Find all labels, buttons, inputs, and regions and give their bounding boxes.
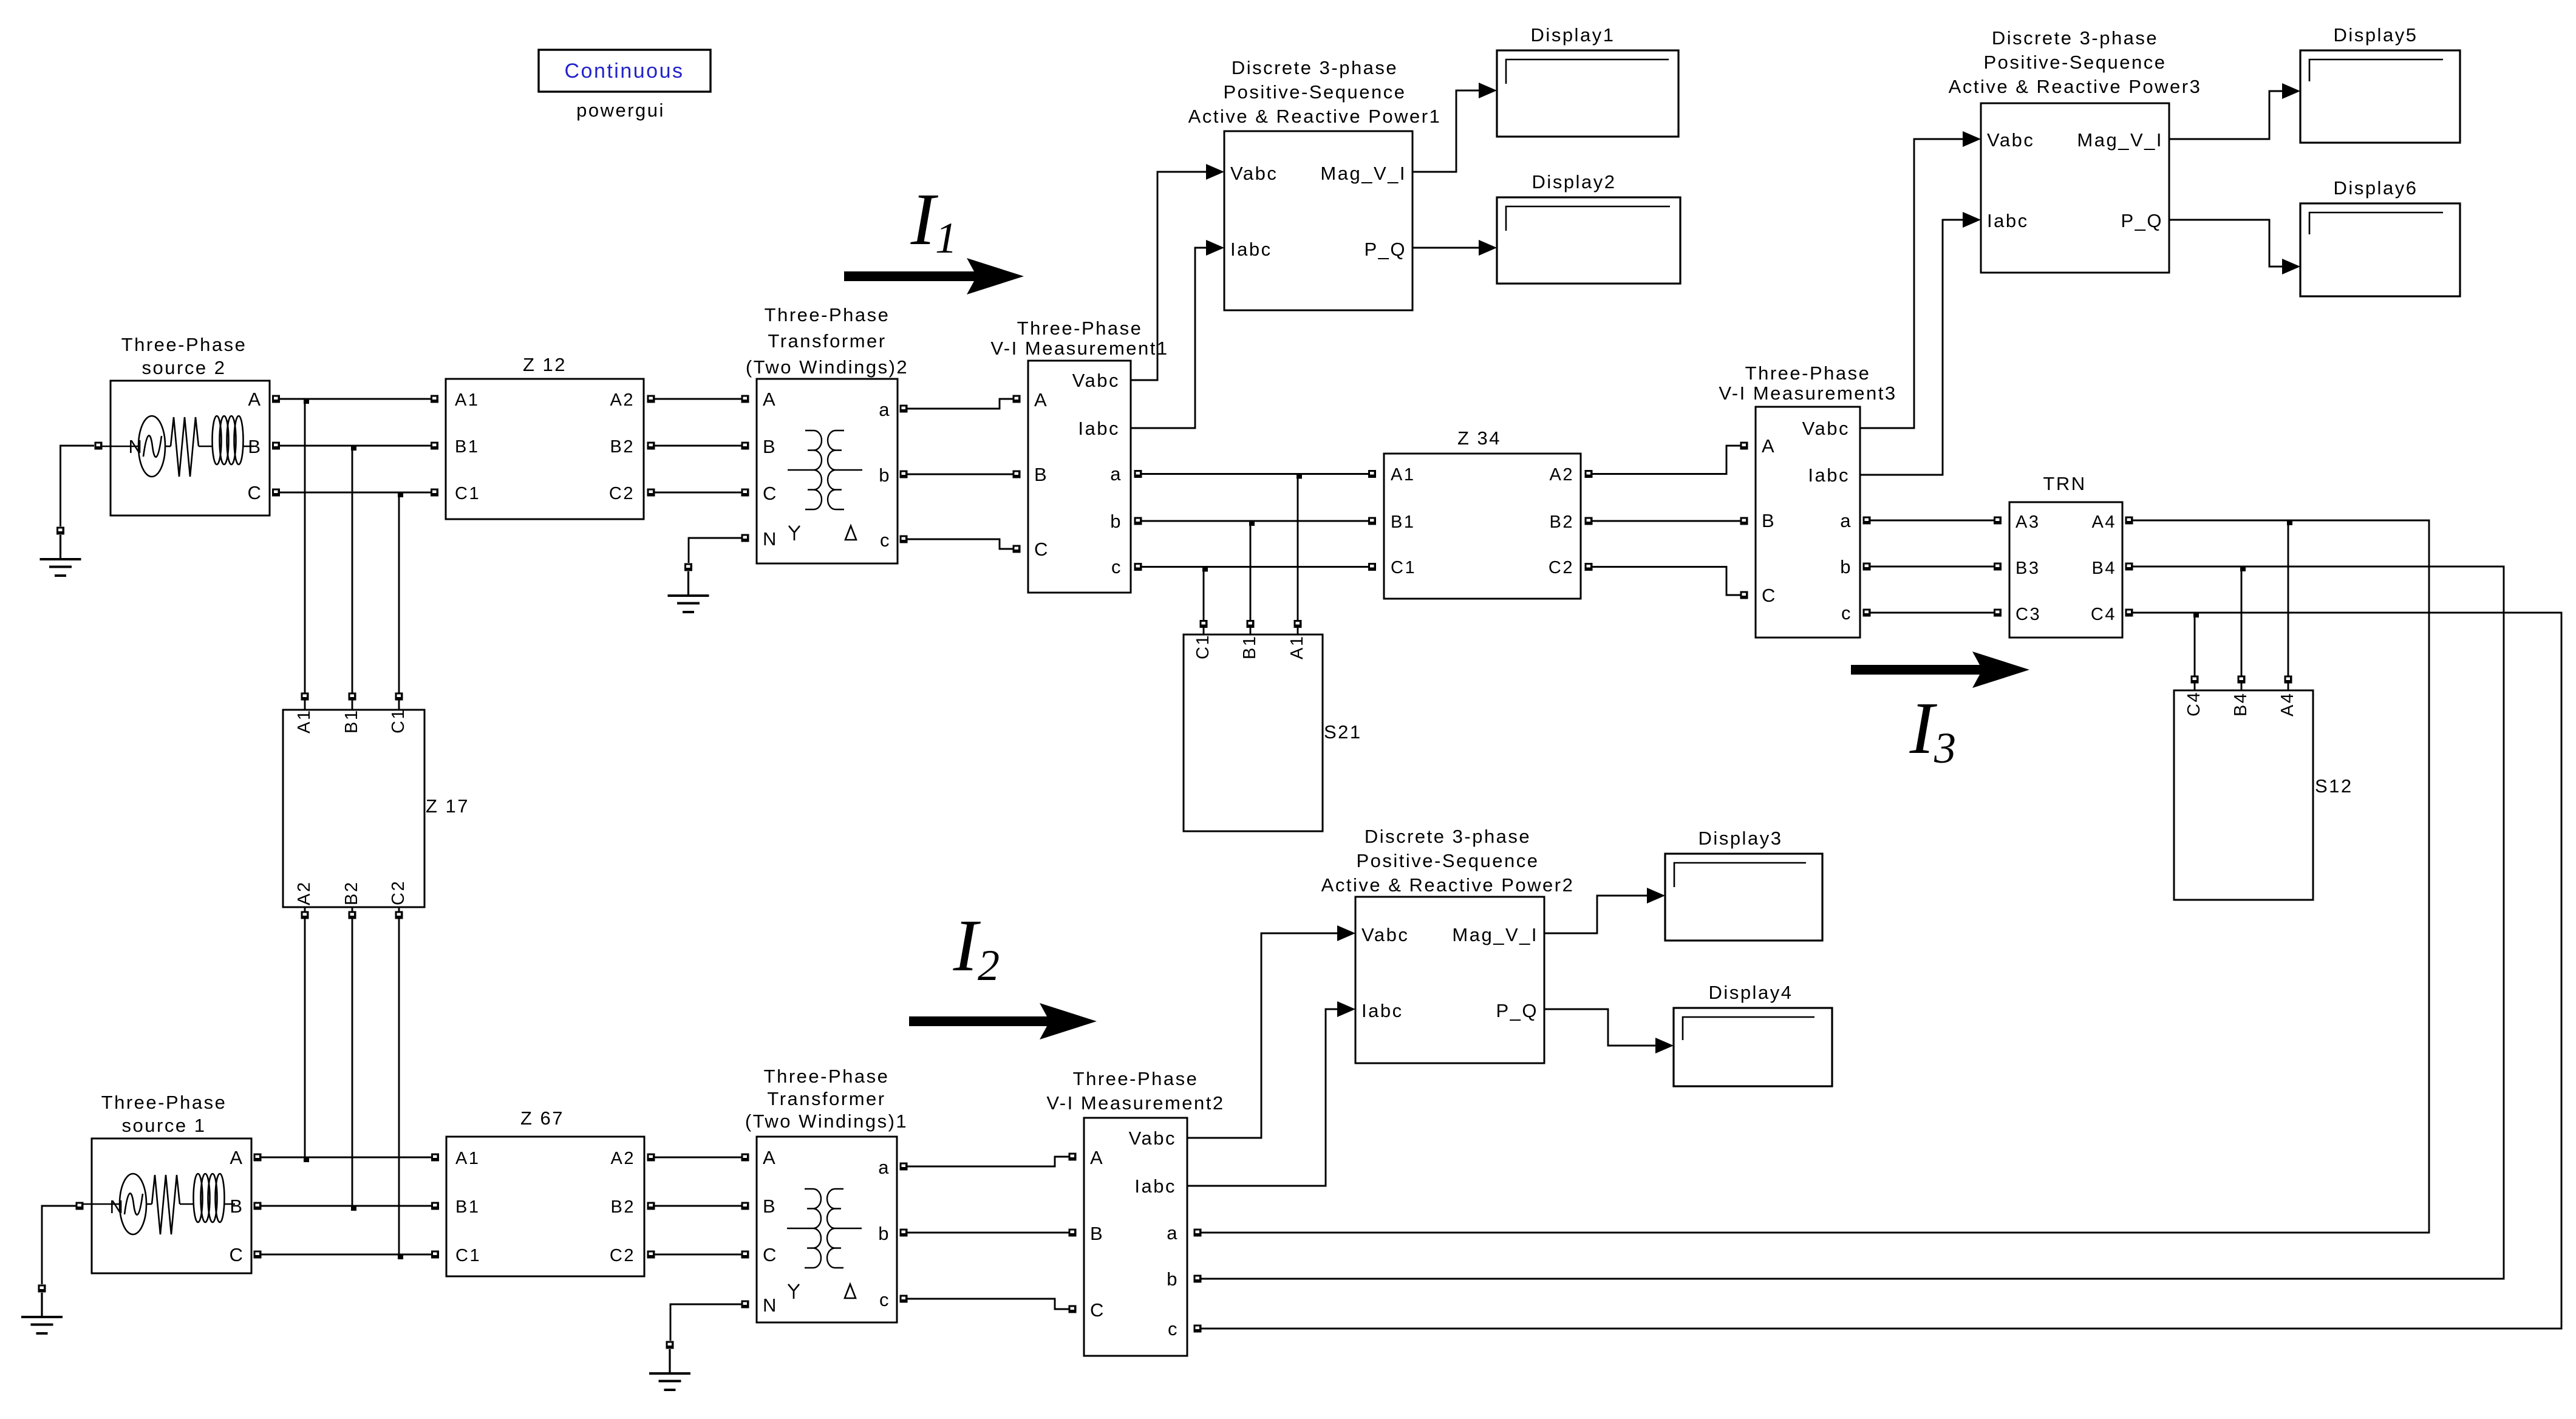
svg-text:1: 1 bbox=[935, 214, 957, 262]
Z67 port C2 bbox=[647, 1251, 655, 1259]
svg-text:Display4: Display4 bbox=[1709, 982, 1793, 1003]
source 2 port B bbox=[272, 442, 280, 450]
wire node B4 down to S12 B4 bbox=[2241, 567, 2243, 679]
svg-text:C: C bbox=[230, 1244, 245, 1265]
svg-text:Z 34: Z 34 bbox=[1457, 427, 1501, 449]
wire node a1 down to S21 A1 bbox=[1297, 474, 1299, 621]
Z17 C2 stub bbox=[398, 907, 400, 911]
svg-text:powergui: powergui bbox=[576, 100, 665, 121]
svg-text:Iabc: Iabc bbox=[1987, 210, 2029, 231]
wire source1 N to ground bbox=[42, 1206, 76, 1284]
svg-text:Three-Phase: Three-Phase bbox=[101, 1092, 227, 1113]
wire node A down to Z17 A1 bbox=[304, 399, 306, 693]
svg-text:B2: B2 bbox=[611, 1197, 635, 1217]
wire transformer2 c to VIM1 C bbox=[907, 539, 1013, 549]
svg-text:B: B bbox=[248, 436, 262, 457]
svg-text:C: C bbox=[763, 1244, 778, 1265]
current arrow I3 bbox=[1851, 652, 2029, 688]
ground GT2 (transformer2 neutral) bbox=[668, 563, 709, 613]
VIM1 port b bbox=[1134, 517, 1142, 525]
svg-text:C3: C3 bbox=[2015, 605, 2041, 624]
three-phase transformer (two windings)2 block bbox=[757, 379, 898, 563]
wire Z67 B2 to transformer1 B bbox=[655, 1205, 741, 1207]
svg-text:B3: B3 bbox=[2015, 559, 2040, 578]
transformer2 port N bbox=[741, 534, 749, 542]
svg-text:source 1: source 1 bbox=[122, 1115, 206, 1136]
VIM2 port C bbox=[1069, 1305, 1077, 1313]
svg-text:C2: C2 bbox=[1549, 558, 1574, 577]
wire VIM3 a to TRN A3 bbox=[1870, 520, 1994, 522]
svg-text:Continuous: Continuous bbox=[564, 60, 684, 83]
svg-text:C1: C1 bbox=[455, 1246, 481, 1265]
wire transformer1 a to VIM2 A bbox=[907, 1157, 1069, 1166]
svg-text:source 2: source 2 bbox=[142, 357, 227, 378]
svg-text:Positive-Sequence: Positive-Sequence bbox=[1224, 81, 1406, 103]
source 2 port C bbox=[272, 489, 280, 497]
three-phase source 1 block bbox=[83, 1138, 251, 1273]
svg-text:C1: C1 bbox=[1193, 634, 1213, 659]
display5 block bbox=[2300, 50, 2460, 143]
svg-text:B2: B2 bbox=[342, 881, 361, 905]
wire source1 B to Z67 B1 bbox=[261, 1205, 431, 1207]
Z34 port C2 bbox=[1585, 563, 1593, 571]
wire node c1 down to S21 C1 bbox=[1203, 567, 1205, 621]
I3 label bbox=[1909, 687, 1956, 772]
svg-text:V-I Measurement3: V-I Measurement3 bbox=[1719, 383, 1896, 404]
svg-text:C4: C4 bbox=[2184, 691, 2204, 716]
I1 label bbox=[910, 179, 957, 262]
VIM2 port c bbox=[1194, 1325, 1202, 1333]
power2 label bbox=[1321, 826, 1575, 896]
impedance block Z 12 bbox=[446, 379, 644, 519]
svg-text:b: b bbox=[1167, 1268, 1179, 1290]
svg-text:A: A bbox=[1090, 1147, 1104, 1168]
svg-text:Mag_V_I: Mag_V_I bbox=[1452, 924, 1538, 945]
junction node a1 (to S21 A1) bbox=[1297, 474, 1302, 479]
svg-text:Iabc: Iabc bbox=[1078, 418, 1120, 439]
svg-text:C: C bbox=[1034, 539, 1049, 560]
transformer1 port c bbox=[900, 1295, 908, 1303]
Z12 port C2 bbox=[647, 489, 655, 497]
Z17 port B2 bbox=[349, 911, 356, 919]
Z17 port B1 bbox=[349, 693, 356, 701]
wire source1 A to Z67 A1 bbox=[261, 1157, 431, 1159]
svg-text:a: a bbox=[878, 1157, 890, 1178]
svg-text:B1: B1 bbox=[455, 1197, 480, 1217]
current arrow I1 bbox=[844, 258, 1024, 294]
power3 label bbox=[1949, 27, 2202, 97]
svg-text:P_Q: P_Q bbox=[2121, 210, 2163, 231]
svg-text:B: B bbox=[1762, 510, 1776, 531]
svg-text:S12: S12 bbox=[2315, 775, 2353, 797]
Z67 port C1 bbox=[431, 1251, 439, 1259]
svg-text:(Two Windings)2: (Two Windings)2 bbox=[746, 356, 908, 378]
svg-text:B1: B1 bbox=[1391, 512, 1415, 532]
wire node b1 down to S21 B1 bbox=[1250, 521, 1252, 620]
S12 port A4 bbox=[2285, 676, 2292, 684]
Z17 C1 stub bbox=[398, 700, 400, 710]
transformer2 port C bbox=[741, 489, 749, 497]
ground G2 (source 2 neutral) bbox=[40, 527, 81, 576]
transformer1 port C bbox=[741, 1251, 749, 1259]
svg-text:C2: C2 bbox=[610, 1246, 635, 1265]
impedance block Z 17 bbox=[283, 708, 424, 907]
svg-text:B2: B2 bbox=[1550, 512, 1574, 532]
svg-text:Discrete 3-phase: Discrete 3-phase bbox=[1232, 57, 1398, 78]
junction node C (source2-Z17) bbox=[398, 492, 403, 497]
wire node A4 down to S12 A4 bbox=[2288, 520, 2289, 679]
VIM1 port a bbox=[1134, 470, 1142, 478]
wire Z17 A2 down to node A (source1) bbox=[304, 919, 306, 1157]
svg-text:C: C bbox=[248, 482, 263, 503]
svg-text:Transformer: Transformer bbox=[767, 1088, 885, 1109]
transformer1 label bbox=[745, 1066, 908, 1132]
V-I measurement3 label bbox=[1719, 362, 1896, 404]
wire source1 C to Z67 C1 bbox=[261, 1254, 431, 1256]
three-phase V-I measurement3 block bbox=[1756, 407, 1860, 638]
wire transformer2 b to VIM1 B bbox=[907, 474, 1013, 475]
svg-text:Vabc: Vabc bbox=[1230, 163, 1278, 184]
junction node A4 (to S12 A4) bbox=[2287, 520, 2292, 525]
VIM2 port b bbox=[1194, 1275, 1202, 1283]
svg-text:C1: C1 bbox=[1391, 558, 1416, 577]
svg-text:B4: B4 bbox=[2092, 559, 2116, 578]
junction node A (source2-Z17) bbox=[304, 398, 309, 404]
svg-text:P_Q: P_Q bbox=[1364, 239, 1406, 260]
load block S21 bbox=[1184, 634, 1323, 831]
svg-text:A2: A2 bbox=[295, 881, 314, 905]
wire VIM1 c to Z34 C1 bbox=[1142, 566, 1368, 568]
wire Z12 A2 to transformer2 A bbox=[655, 398, 741, 400]
wire transformer2 N to ground bbox=[689, 538, 741, 563]
svg-text:C: C bbox=[1090, 1299, 1105, 1321]
wire transformer1 c to VIM2 C bbox=[907, 1299, 1069, 1309]
svg-text:S21: S21 bbox=[1324, 721, 1362, 743]
VIM3 port C bbox=[1740, 591, 1748, 599]
Z34 port A2 bbox=[1585, 470, 1593, 478]
S12 port B4 bbox=[2238, 676, 2246, 684]
junction node B (source2-Z17) bbox=[351, 445, 356, 451]
VIM1 port A bbox=[1013, 395, 1021, 403]
svg-text:A4: A4 bbox=[2278, 692, 2297, 716]
wire power1 P_Q to display2 bbox=[1412, 247, 1479, 249]
Z17 A1 stub bbox=[304, 700, 306, 710]
powergui block (Continuous) bbox=[539, 50, 710, 92]
svg-text:A: A bbox=[1034, 389, 1048, 410]
junction node b1 (to S21 B1) bbox=[1249, 520, 1255, 526]
Z17 port C1 bbox=[395, 693, 403, 701]
wire Z67 A2 to transformer1 A bbox=[655, 1157, 741, 1159]
svg-text:B: B bbox=[230, 1196, 244, 1217]
wire source2 B to Z12 B1 bbox=[280, 445, 431, 447]
wire VIM1 Vabc to power1 Vabc bbox=[1131, 172, 1206, 380]
svg-text:Display1: Display1 bbox=[1531, 24, 1615, 46]
discrete 3-phase positive-sequence active & reactive power3 block bbox=[1981, 103, 2169, 273]
svg-text:V-I Measurement2: V-I Measurement2 bbox=[1046, 1092, 1224, 1114]
display1 block bbox=[1497, 50, 1678, 137]
svg-text:Iabc: Iabc bbox=[1361, 1000, 1403, 1021]
S21 port C1 bbox=[1200, 620, 1208, 628]
svg-text:I: I bbox=[953, 905, 981, 987]
three-phase source 2 label bbox=[121, 334, 247, 378]
wire TRN C4 to VIM2 c (feedback) bbox=[1201, 613, 2561, 1329]
VIM2 port A bbox=[1069, 1153, 1077, 1161]
transformer1 port N bbox=[741, 1301, 749, 1308]
source 1 port A bbox=[254, 1154, 262, 1162]
source 1 port C bbox=[254, 1251, 262, 1259]
svg-text:Vabc: Vabc bbox=[1361, 924, 1409, 945]
wire transformer2 a to VIM1 A bbox=[907, 399, 1013, 409]
svg-text:A1: A1 bbox=[455, 390, 479, 410]
TRN port B3 bbox=[1994, 563, 2002, 571]
svg-text:Vabc: Vabc bbox=[1072, 370, 1120, 391]
svg-text:b: b bbox=[878, 1223, 890, 1244]
svg-text:N: N bbox=[763, 528, 778, 550]
TRN port A4 bbox=[2125, 517, 2133, 525]
three-phase V-I measurement1 block bbox=[1028, 361, 1131, 593]
VIM3 port B bbox=[1740, 517, 1748, 525]
svg-text:Display2: Display2 bbox=[1532, 171, 1617, 192]
svg-text:P_Q: P_Q bbox=[1496, 1000, 1538, 1021]
svg-text:Active & Reactive Power2: Active & Reactive Power2 bbox=[1321, 874, 1575, 896]
transformer2 port c bbox=[900, 536, 908, 543]
svg-text:b: b bbox=[879, 464, 891, 486]
Z17 B1 stub bbox=[352, 700, 353, 710]
wire power2 Mag_V_I to display3 bbox=[1544, 896, 1647, 933]
svg-text:B: B bbox=[1034, 464, 1048, 485]
svg-text:B: B bbox=[763, 436, 777, 457]
svg-text:B2: B2 bbox=[610, 437, 635, 457]
wire node C4 down to S12 C4 bbox=[2194, 613, 2196, 679]
S21 port B1 stub bbox=[1250, 628, 1252, 635]
wire VIM1 Iabc to power1 Iabc bbox=[1131, 248, 1206, 428]
svg-text:a: a bbox=[1110, 463, 1122, 485]
svg-text:Iabc: Iabc bbox=[1134, 1176, 1176, 1197]
svg-text:A1: A1 bbox=[455, 1149, 480, 1168]
svg-text:Vabc: Vabc bbox=[1987, 129, 2034, 151]
wire source2 N to ground bbox=[61, 446, 95, 526]
Z12 port A1 bbox=[431, 395, 438, 403]
wire power1 Mag_V_I to display1 bbox=[1412, 90, 1479, 172]
VIM1 port C bbox=[1013, 545, 1021, 553]
Z34 port C1 bbox=[1368, 563, 1376, 571]
S12 port A4 stub bbox=[2288, 683, 2289, 690]
svg-text:Three-Phase: Three-Phase bbox=[765, 304, 890, 325]
S12 port C4 stub bbox=[2194, 683, 2196, 690]
svg-text:A2: A2 bbox=[1550, 465, 1574, 485]
impedance block Z 67 bbox=[446, 1137, 644, 1276]
discrete 3-phase positive-sequence active & reactive power1 block bbox=[1224, 131, 1412, 310]
svg-text:Iabc: Iabc bbox=[1230, 239, 1272, 260]
Z34 port B2 bbox=[1585, 517, 1593, 525]
S21 port A1 bbox=[1294, 620, 1302, 628]
Z12 port B2 bbox=[647, 442, 655, 450]
Z67 port B1 bbox=[431, 1202, 439, 1210]
svg-text:Z 67: Z 67 bbox=[520, 1108, 564, 1129]
S21 port C1 stub bbox=[1203, 628, 1205, 635]
svg-text:A1: A1 bbox=[1287, 635, 1307, 659]
junction node B4 (to S12 B4) bbox=[2240, 566, 2246, 571]
VIM3 port c bbox=[1863, 609, 1871, 617]
discrete 3-phase positive-sequence active & reactive power2 block bbox=[1355, 897, 1544, 1063]
wire VIM3 b to TRN B3 bbox=[1870, 566, 1994, 568]
wire VIM2 Vabc to power2 Vabc bbox=[1187, 933, 1337, 1138]
svg-text:Three-Phase: Three-Phase bbox=[121, 334, 247, 355]
three-phase transformer (two windings)1 block bbox=[757, 1137, 897, 1322]
svg-text:Positive-Sequence: Positive-Sequence bbox=[1984, 52, 2167, 73]
svg-text:B: B bbox=[1090, 1223, 1104, 1244]
svg-text:Three-Phase: Three-Phase bbox=[1073, 1068, 1199, 1089]
svg-text:Mag_V_I: Mag_V_I bbox=[1320, 163, 1406, 184]
svg-text:C1: C1 bbox=[455, 484, 480, 503]
svg-text:C: C bbox=[1762, 585, 1777, 606]
wire source2 C to Z12 C1 bbox=[280, 492, 431, 494]
svg-text:Iabc: Iabc bbox=[1808, 464, 1850, 486]
svg-text:C: C bbox=[763, 483, 778, 504]
transformer2 delta symbol bbox=[845, 526, 856, 540]
Z67 port B2 bbox=[647, 1202, 655, 1210]
wire VIM3 Vabc to power3 Vabc bbox=[1860, 139, 1963, 428]
svg-text:A: A bbox=[1762, 435, 1776, 457]
wire VIM3 Iabc to power3 Iabc bbox=[1860, 220, 1963, 475]
VIM3 port A bbox=[1740, 442, 1748, 450]
wire Z12 B2 to transformer2 B bbox=[655, 445, 741, 447]
wire VIM3 c to TRN C3 bbox=[1870, 612, 1994, 614]
Z12 port B1 bbox=[431, 442, 438, 450]
transformer2 port A bbox=[741, 395, 749, 403]
wire Z34 B2 to VIM3 B bbox=[1592, 520, 1740, 522]
svg-text:Z 12: Z 12 bbox=[523, 354, 567, 375]
transformer1 port a bbox=[900, 1163, 908, 1171]
svg-text:Vabc: Vabc bbox=[1129, 1128, 1176, 1149]
wire Z17 C2 down to node C (source1) bbox=[398, 919, 400, 1254]
svg-text:Transformer: Transformer bbox=[768, 330, 886, 352]
wire transformer1 b to VIM2 B bbox=[907, 1232, 1069, 1234]
junction node C (source1-Z17) bbox=[398, 1254, 403, 1259]
svg-text:A3: A3 bbox=[2015, 512, 2040, 532]
transformer1 port B bbox=[741, 1202, 749, 1210]
ground GT1 (transformer1 neutral) bbox=[649, 1341, 690, 1390]
Z34 port B1 bbox=[1368, 517, 1376, 525]
svg-text:Active & Reactive Power3: Active & Reactive Power3 bbox=[1949, 76, 2202, 97]
svg-text:A2: A2 bbox=[610, 390, 635, 410]
ground G1 (source 1 neutral) bbox=[21, 1285, 63, 1334]
three-phase source 1 label bbox=[101, 1092, 227, 1136]
svg-text:A2: A2 bbox=[611, 1149, 635, 1168]
TRN port C4 bbox=[2125, 609, 2133, 617]
VIM2 port a bbox=[1194, 1229, 1202, 1237]
Z17 port A1 bbox=[301, 693, 309, 701]
svg-text:Display5: Display5 bbox=[2334, 24, 2418, 46]
wire transformer1 N to ground bbox=[670, 1304, 741, 1341]
wire VIM2 Iabc to power2 Iabc bbox=[1187, 1009, 1337, 1186]
svg-text:Display3: Display3 bbox=[1699, 828, 1783, 849]
svg-text:I: I bbox=[910, 179, 939, 260]
display6 block bbox=[2300, 203, 2460, 296]
Z17 A2 stub bbox=[304, 907, 306, 911]
svg-text:C1: C1 bbox=[389, 708, 408, 733]
I2 label bbox=[953, 905, 1000, 990]
Z12 port A2 bbox=[647, 395, 655, 403]
transformer1 port A bbox=[741, 1154, 749, 1162]
VIM3 port a bbox=[1863, 517, 1871, 525]
wire node C down to Z17 C1 bbox=[398, 492, 400, 693]
wire VIM1 a to Z34 A1 bbox=[1142, 473, 1368, 475]
Z67 port A1 bbox=[431, 1154, 439, 1162]
VIM3 port b bbox=[1863, 563, 1871, 571]
wire power3 P_Q to display6 bbox=[2169, 220, 2282, 267]
TRN port B4 bbox=[2125, 563, 2133, 571]
svg-text:2: 2 bbox=[978, 941, 1000, 990]
svg-text:A4: A4 bbox=[2092, 512, 2116, 532]
junction node c1 (to S21 C1) bbox=[1202, 567, 1208, 572]
three-phase source 2 block bbox=[102, 381, 270, 516]
V-I measurement1 label bbox=[990, 318, 1168, 359]
wire Z67 C2 to transformer1 C bbox=[655, 1254, 741, 1256]
transformer1 delta symbol bbox=[845, 1284, 856, 1298]
wire TRN B4 to VIM2 b (feedback) bbox=[1201, 567, 2504, 1279]
junction node A (source1-Z17) bbox=[304, 1157, 309, 1162]
transformer2 port a bbox=[900, 405, 908, 413]
Z12 port C1 bbox=[431, 489, 438, 497]
svg-text:Three-Phase: Three-Phase bbox=[1017, 318, 1143, 339]
svg-text:N: N bbox=[763, 1295, 778, 1316]
svg-text:c: c bbox=[879, 1289, 890, 1310]
svg-text:Three-Phase: Three-Phase bbox=[764, 1066, 890, 1087]
source 1 port B bbox=[254, 1202, 262, 1210]
display2 block bbox=[1497, 197, 1680, 284]
wire Z34 A2 to VIM3 A bbox=[1592, 446, 1740, 474]
svg-text:a: a bbox=[1840, 510, 1852, 531]
svg-text:N: N bbox=[110, 1196, 125, 1217]
svg-text:(Two Windings)1: (Two Windings)1 bbox=[745, 1111, 908, 1132]
svg-text:A: A bbox=[763, 1147, 777, 1168]
svg-text:3: 3 bbox=[1934, 724, 1956, 772]
svg-text:c: c bbox=[880, 529, 891, 551]
wire power2 P_Q to display4 bbox=[1544, 1009, 1655, 1046]
svg-text:c: c bbox=[1111, 556, 1122, 577]
svg-text:C4: C4 bbox=[2091, 605, 2116, 624]
source 2 port N bbox=[95, 442, 103, 450]
display3 block bbox=[1665, 854, 1822, 941]
svg-text:Vabc: Vabc bbox=[1802, 418, 1850, 439]
svg-text:a: a bbox=[1167, 1222, 1179, 1244]
wire Z34 C2 to VIM3 C bbox=[1592, 567, 1740, 596]
svg-text:C2: C2 bbox=[389, 880, 408, 905]
transformer2 Y symbol bbox=[789, 526, 800, 540]
svg-text:c: c bbox=[1168, 1318, 1179, 1339]
wire power3 Mag_V_I to display5 bbox=[2169, 91, 2282, 139]
svg-text:c: c bbox=[1841, 602, 1852, 624]
wire VIM1 b to Z34 B1 bbox=[1142, 520, 1368, 522]
current arrow I2 bbox=[909, 1003, 1097, 1040]
junction node B (source1-Z17) bbox=[351, 1205, 356, 1211]
svg-text:Active & Reactive Power1: Active & Reactive Power1 bbox=[1188, 106, 1442, 127]
source 1 port N bbox=[76, 1202, 84, 1210]
wire Z17 B2 down to node B (source1) bbox=[352, 919, 353, 1206]
VIM2 port B bbox=[1069, 1229, 1077, 1237]
wire TRN A4 to VIM2 a (feedback) bbox=[1201, 520, 2429, 1233]
TRN port A3 bbox=[1994, 517, 2002, 525]
svg-text:B: B bbox=[763, 1196, 777, 1217]
svg-text:A1: A1 bbox=[295, 709, 314, 733]
transformer2 port B bbox=[741, 442, 749, 450]
svg-text:V-I Measurement1: V-I Measurement1 bbox=[990, 338, 1168, 359]
source 2 port A bbox=[272, 395, 280, 403]
svg-text:Display6: Display6 bbox=[2334, 177, 2418, 199]
VIM1 port c bbox=[1134, 563, 1142, 571]
Z17 port C2 bbox=[395, 911, 403, 919]
